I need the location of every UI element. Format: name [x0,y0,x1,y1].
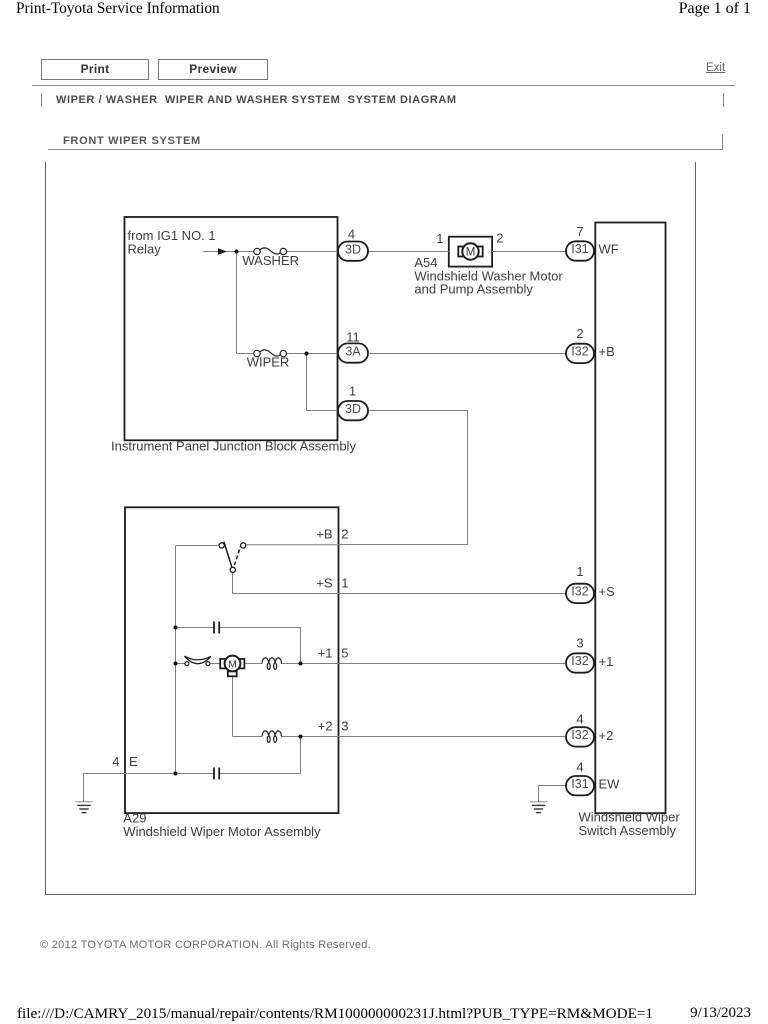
svg-text:1: 1 [576,564,583,579]
svg-text:M: M [228,659,237,671]
svg-text:Instrument Panel Junction Bloc: Instrument Panel Junction Block Assembly [111,438,356,453]
svg-text:3D: 3D [345,242,361,256]
svg-text:I31: I31 [571,242,588,256]
svg-text:+S: +S [316,576,333,591]
svg-text:+S: +S [599,584,616,599]
svg-text:5: 5 [341,646,348,661]
svg-text:3A: 3A [345,344,361,358]
svg-text:3: 3 [341,719,348,734]
svg-text:2: 2 [576,326,583,341]
svg-text:EW: EW [599,777,621,792]
svg-text:WF: WF [599,242,619,257]
svg-text:I32: I32 [571,345,588,359]
svg-text:E: E [129,754,138,769]
svg-text:1: 1 [349,384,356,399]
svg-text:+B: +B [316,527,332,542]
svg-text:+1: +1 [599,654,614,669]
svg-text:and Pump Assembly: and Pump Assembly [414,282,533,297]
svg-text:Relay: Relay [128,241,162,256]
svg-text:7: 7 [576,224,583,239]
svg-text:2: 2 [496,231,503,246]
svg-text:+1: +1 [318,646,333,661]
svg-text:I32: I32 [571,654,588,668]
svg-text:11: 11 [346,329,360,344]
svg-text:+2: +2 [599,728,614,743]
svg-text:3: 3 [576,636,583,651]
svg-text:+2: +2 [318,719,333,734]
svg-text:4: 4 [348,227,355,242]
svg-text:I32: I32 [571,728,588,742]
svg-text:WIPER: WIPER [247,355,290,370]
svg-text:1: 1 [436,231,443,246]
svg-text:3D: 3D [345,402,361,416]
svg-text:M: M [466,247,476,259]
svg-text:Switch Assembly: Switch Assembly [579,823,677,838]
svg-text:I31: I31 [571,777,588,791]
svg-text:WASHER: WASHER [242,253,299,268]
svg-text:2: 2 [341,527,348,542]
svg-text:4: 4 [576,760,583,775]
svg-text:4: 4 [112,754,119,769]
svg-text:Windshield Wiper Motor Assembl: Windshield Wiper Motor Assembly [123,824,321,839]
svg-text:1: 1 [341,576,348,591]
svg-text:+B: +B [599,344,615,359]
svg-text:4: 4 [576,711,583,726]
svg-text:I32: I32 [571,585,588,599]
